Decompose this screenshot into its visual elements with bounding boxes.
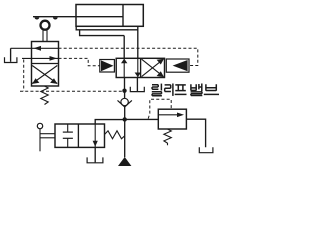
tank T3 line (94, 147, 96, 162)
valve V2 (pilot operated 4/2) body (116, 58, 164, 77)
V2 left box up-arrow (123, 58, 125, 77)
V2 left box down-arrow (137, 58, 139, 77)
cylinder C1 rod and cam plate (33, 16, 123, 18)
V1 bottom box crossed arrows (32, 66, 57, 84)
V1 top box flow line left-arrow (11, 47, 59, 49)
tank T2 line under V2 (136, 78, 138, 92)
V1 top box flow line right-arrow (22, 57, 59, 59)
roller stem (42, 31, 44, 42)
V2 right pilot box (166, 59, 189, 72)
pilot line dashed pump to V1 (20, 60, 122, 92)
line A step (80, 30, 125, 36)
V2 left pilot box (100, 60, 115, 73)
V3 lever arm (39, 129, 41, 152)
RV spring (164, 129, 171, 145)
cylinder C1 piston (122, 5, 124, 27)
node N1 junction dot (122, 89, 126, 93)
V3 spring (105, 131, 125, 139)
V3 lever fork (40, 133, 55, 135)
tank T1 (5, 57, 17, 62)
V1 return spring (41, 86, 48, 105)
supply riser wire (124, 106, 126, 158)
cylinder C1 body (76, 5, 143, 27)
pilot line dashed V1-line2 to left pilot (20, 48, 198, 118)
tank T4 (199, 147, 213, 152)
V3 left box blocked ports (67, 124, 69, 132)
label 릴리프밸브 (relief valve) hand-drawn hangul (152, 84, 219, 96)
tank T3 (87, 157, 103, 162)
cam plate foot left (35, 17, 40, 19)
relief valve RV body (158, 109, 186, 129)
리 (165, 85, 171, 92)
supply branch wire to lever valve V3 (95, 120, 125, 124)
wire V2 left-top port riser (123, 36, 125, 59)
tank T2 (130, 87, 144, 92)
wire V2 right-top port riser (137, 27, 139, 58)
V3 right box flow down-arrow (94, 124, 96, 147)
RV internal arrow (159, 114, 182, 116)
roller follower of valve V1 (41, 21, 50, 30)
V2 right box crossed arrows (142, 59, 164, 76)
브 (206, 84, 216, 90)
밸 (191, 84, 196, 90)
line B cylinder cap port to valve V2 left-top port (76, 26, 138, 30)
wire V2 bottom-left port to node (124, 78, 126, 92)
V3 lever circle (37, 123, 42, 128)
valve V3 (lever operated 2/2) body (55, 124, 105, 147)
relief valve pilot dashed (148, 99, 171, 118)
supply branch wire to relief valve RV (125, 118, 159, 120)
릴 (152, 85, 158, 90)
node N2 cross junction dot (123, 117, 127, 121)
프 (175, 84, 186, 86)
RV outlet wire (186, 119, 205, 147)
valve V1 (cam-operated 4/2) body (32, 42, 59, 87)
check valve CV1 ball (121, 98, 128, 105)
pilot line dashed V1-line1 to right pilot (59, 48, 198, 65)
cam plate foot right (53, 17, 58, 19)
check valve CV1 line upper (124, 91, 126, 99)
check valve CV1 seat (118, 100, 132, 107)
tank T1 line (10, 48, 12, 62)
pump P pressure source triangle (118, 157, 131, 166)
